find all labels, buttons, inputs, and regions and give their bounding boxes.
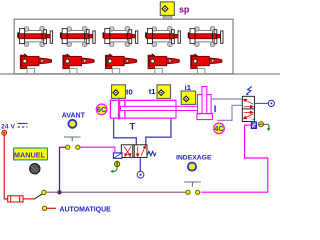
wire AVANT contact to V1 pilot: [80, 147, 115, 153]
station module 1 mount notch: [27, 68, 34, 73]
junction node: [57, 190, 61, 194]
sensor t1: [157, 85, 171, 99]
station module 4 feed cylinder (side view): [148, 54, 179, 68]
svg-text:MANUEL: MANUEL: [14, 150, 46, 159]
cylinder I piston plate: [197, 114, 213, 120]
svg-text:T: T: [130, 121, 136, 132]
station module 1 feed cylinder (side view): [20, 54, 51, 68]
station module 2 feed cylinder (side view): [63, 54, 94, 68]
port source dot right of V2: [268, 100, 274, 106]
valve V1 pilot: [113, 153, 122, 158]
wire 24V supply (red): [4, 135, 8, 199]
wire junction to AVANT contact: [60, 147, 66, 192]
button AVANT: [68, 120, 76, 128]
svg-text:24 V: 24 V: [1, 123, 15, 130]
cylinder I body: [198, 95, 212, 114]
svg-text:4C: 4C: [214, 124, 224, 133]
tag 6C: [96, 104, 107, 115]
port source dot under V1: [137, 171, 144, 178]
svg-text:i1: i1: [185, 83, 192, 92]
legend AUTOMATIQUE stub: [47, 207, 56, 209]
svg-text:t1: t1: [149, 87, 157, 96]
station module 3 slide unit (top view): [103, 26, 138, 46]
svg-text:AVANT: AVANT: [62, 112, 86, 119]
legend AUTOMATIQUE terminal: [42, 206, 46, 210]
station module 5 feed cylinder (side view): [191, 54, 222, 68]
valve V1 arrows: [124, 146, 146, 157]
valve V2 arrows: [243, 99, 254, 119]
svg-text:AUTOMATIQUE: AUTOMATIQUE: [59, 206, 111, 213]
main rail wire: [46, 191, 186, 193]
svg-text:6C: 6C: [97, 105, 107, 114]
wire baseline (machine ground line): [0, 73, 280, 75]
svg-text:t0: t0: [126, 88, 133, 97]
station module 3 mount notch: [112, 68, 119, 73]
station module 4 mount notch: [155, 68, 162, 73]
valve V2 pilot: [251, 122, 256, 128]
wire cylinder I bottom to V2: [217, 105, 242, 120]
cylinder T: [110, 99, 198, 119]
label 24 V dc: [1, 123, 28, 130]
valve V1 body: [121, 145, 147, 158]
station module 2 slide unit (top view): [60, 26, 95, 46]
contact AVANT (NO): [64, 137, 81, 149]
sensor i1: [181, 91, 195, 104]
cylinder I rod: [202, 86, 207, 113]
wire V2 pilot to INDEXAGE contact: [201, 125, 268, 192]
station module 4 slide unit (top view): [145, 26, 180, 46]
selector knob: [30, 164, 40, 174]
fuse F1: [8, 196, 23, 202]
sensor t0: [112, 85, 126, 99]
V1 manual override dot: [115, 162, 120, 167]
V2 manual override dot: [259, 122, 264, 127]
terminal +24V: [2, 130, 7, 135]
station module 3 feed cylinder (side view): [106, 54, 137, 68]
station module 5 mount notch: [198, 68, 205, 73]
wire valve V1 exhaust stub: [139, 157, 141, 171]
svg-text:INDEXAGE: INDEXAGE: [176, 154, 212, 161]
contact INDEXAGE (NO): [184, 182, 201, 194]
valve V1 return spring: [147, 151, 156, 156]
sensor sp: [160, 2, 174, 16]
wire V2 to source dot: [254, 102, 268, 104]
station module 5 slide unit (top view): [188, 26, 223, 46]
station module 2 mount notch: [70, 68, 77, 73]
V2 manual override arrow: [267, 124, 270, 128]
selector blade: [35, 193, 44, 199]
sensor sp foot: [163, 15, 172, 19]
svg-text:sp: sp: [179, 4, 190, 14]
wire cylinder I top port to V2: [211, 98, 242, 100]
wire fuse to selector: [23, 198, 35, 200]
machine frame: [14, 19, 233, 74]
svg-text:I: I: [214, 104, 217, 115]
V1 manual override arrow: [112, 167, 117, 171]
wire cylinder T left port: [114, 119, 137, 145]
label MANUEL: [14, 148, 48, 160]
selector terminal: [42, 190, 46, 194]
valve V2 solenoid squiggle: [247, 87, 252, 94]
tag 4C: [214, 123, 225, 134]
V2 manual override stub: [258, 123, 268, 125]
button INDEXAGE: [188, 163, 196, 171]
valve V2 body: [242, 96, 254, 121]
station module 1 slide unit (top view): [17, 26, 52, 46]
wire cylinder T right port: [146, 119, 171, 145]
